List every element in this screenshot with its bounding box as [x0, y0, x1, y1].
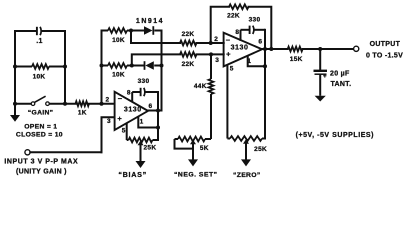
- wire U1 pin1: [138, 116, 158, 127]
- label 1N914: [136, 18, 164, 25]
- label UNITY GAIN: [16, 169, 67, 176]
- svg-text:3: 3: [107, 118, 111, 125]
- junction bottom-branch tap: [130, 64, 134, 68]
- wire U2 output: [261, 48, 288, 50]
- junction block-left/main: [13, 102, 17, 106]
- wire feedback to output: [249, 7, 272, 49]
- svg-text:22K: 22K: [227, 13, 240, 20]
- wire U1 output: [147, 110, 162, 112]
- ground arrow left: [10, 104, 20, 122]
- label 330 U1: [138, 78, 150, 85]
- svg-text:−: −: [118, 94, 123, 103]
- U1 pin 6: [148, 103, 152, 110]
- label OUTPUT: [370, 41, 401, 48]
- svg-text:“GAIN”: “GAIN”: [28, 110, 54, 117]
- label BIAS: [118, 170, 147, 179]
- wire 15K to terminal: [303, 48, 354, 50]
- svg-text:.1: .1: [36, 38, 42, 45]
- label 330 U2: [249, 17, 261, 24]
- svg-text:INPUT 3 V P-P MAX: INPUT 3 V P-P MAX: [4, 158, 78, 165]
- label U2 3130: [231, 44, 249, 51]
- svg-text:25K: 25K: [254, 146, 267, 153]
- wire 22K to U2 pin3: [197, 53, 224, 55]
- label NEG. SET: [174, 172, 218, 179]
- svg-text:2: 2: [106, 96, 110, 103]
- junction U2 output/feedback: [269, 47, 273, 51]
- svg-text:22K: 22K: [182, 61, 195, 68]
- label 44K: [194, 83, 207, 90]
- junction U1 output/comp: [156, 109, 160, 113]
- svg-text:6: 6: [148, 103, 152, 110]
- label OPEN = 1: [24, 123, 57, 130]
- svg-text:OUTPUT: OUTPUT: [370, 41, 401, 48]
- supply arrow NEG SET: [188, 155, 198, 166]
- wire left-block left vertical: [14, 31, 16, 104]
- label .1 value: [36, 38, 42, 45]
- capacitor C2 330: [132, 88, 158, 102]
- junction U2 output/comp: [263, 47, 267, 51]
- svg-text:5K: 5K: [200, 145, 209, 152]
- capacitor C3 330: [241, 26, 266, 41]
- svg-text:10K: 10K: [112, 37, 125, 44]
- label 5K: [200, 145, 209, 152]
- svg-text:0 TO -1.5V: 0 TO -1.5V: [366, 52, 403, 59]
- resistor R6 22K: [180, 52, 197, 57]
- label INPUT 3V P-P MAX: [4, 158, 78, 165]
- capacitor C1 .1: [15, 27, 65, 35]
- U2 pin 1: [247, 58, 251, 65]
- label 22K feedback: [227, 13, 240, 20]
- junction left-bus/main-wire: [100, 102, 104, 106]
- svg-text:330: 330: [138, 78, 150, 85]
- resistor R12 15K: [288, 47, 303, 52]
- svg-text:10K: 10K: [33, 74, 46, 81]
- svg-text:“BIAS”: “BIAS”: [118, 170, 147, 179]
- wire U2 comp down / zero vertical: [264, 30, 266, 139]
- switch GAIN: [31, 96, 49, 105]
- label CLOSED = 10: [16, 132, 63, 139]
- label TANT.: [331, 81, 352, 88]
- capacitor C4 20uF tantalum: [314, 49, 328, 96]
- label GAIN: [28, 110, 54, 117]
- U2 minus sign: [226, 36, 231, 45]
- resistor R4 10K bottom: [102, 63, 145, 68]
- svg-text:10K: 10K: [112, 72, 125, 79]
- label 1K value: [78, 109, 87, 116]
- svg-text:+: +: [323, 73, 327, 80]
- U2 pin 8: [235, 29, 239, 36]
- label 25K ZERO: [254, 146, 267, 153]
- junction left-bus/bottom-branch: [100, 64, 104, 68]
- output terminal: [354, 46, 359, 51]
- wire left-block right vertical: [64, 31, 66, 104]
- supply arrow BIAS: [136, 155, 146, 168]
- U2 pin 2: [214, 36, 218, 43]
- potentiometer R10 25K BIAS: [127, 123, 158, 161]
- wire top tap to 22K: [131, 31, 180, 44]
- svg-text:8: 8: [235, 29, 239, 36]
- label 22K top: [182, 31, 195, 38]
- svg-text:5: 5: [122, 127, 126, 134]
- junction pin1/vertical: [156, 126, 160, 130]
- label 10K top branch: [112, 37, 125, 44]
- U1 pin 8: [127, 90, 131, 97]
- svg-text:3130: 3130: [124, 107, 142, 114]
- svg-text:22K: 22K: [182, 31, 195, 38]
- svg-text:6: 6: [258, 38, 262, 45]
- wire 1K to op-amp pin2: [89, 103, 115, 105]
- op-amp U2 3130: [224, 33, 262, 67]
- U2 plus sign: [226, 50, 231, 59]
- diode D2 1N914: [145, 61, 162, 70]
- input terminal: [25, 150, 30, 155]
- junction pin3/44K: [209, 52, 213, 56]
- label 15K: [290, 56, 303, 63]
- wire bottom tap to 22K: [132, 54, 180, 65]
- svg-text:330: 330: [249, 17, 261, 24]
- wire switch to 1K: [50, 103, 76, 105]
- svg-text:15K: 15K: [290, 56, 303, 63]
- op-amp U1 3130: [115, 92, 148, 130]
- U1 minus sign: [118, 94, 123, 103]
- label ZERO: [233, 172, 260, 179]
- supply arrow ZERO: [241, 155, 251, 166]
- wire rectifier left bus: [101, 31, 103, 104]
- label U1 3130: [124, 107, 142, 114]
- U1 pin 2: [106, 96, 110, 103]
- label 25K BIAS: [143, 144, 156, 151]
- svg-text:CLOSED = 10: CLOSED = 10: [16, 132, 63, 139]
- svg-text:5: 5: [230, 66, 234, 73]
- svg-text:2: 2: [214, 36, 218, 43]
- label 20 uF: [330, 71, 350, 78]
- junction right-rail/10K: [63, 65, 67, 69]
- label 10K bottom branch: [112, 72, 125, 79]
- resistor R7 22K feedback: [229, 4, 249, 9]
- svg-text:3: 3: [215, 57, 219, 64]
- wire input to riser: [30, 151, 101, 153]
- svg-text:“ZERO”: “ZERO”: [233, 172, 260, 179]
- svg-text:+: +: [226, 50, 231, 59]
- wire main to switch: [15, 103, 31, 105]
- wire U1 comp/pin1/pot vertical: [157, 92, 159, 140]
- label 22K bottom: [182, 61, 195, 68]
- svg-text:1N914: 1N914: [136, 18, 164, 25]
- wire U2 pin1: [248, 56, 265, 66]
- U1 pin 1: [140, 119, 144, 126]
- svg-text:TANT.: TANT.: [331, 81, 352, 88]
- junction left-rail/10K: [13, 65, 17, 69]
- resistor R2 1K: [76, 101, 90, 106]
- resistor R8 44K: [209, 54, 214, 139]
- svg-text:8: 8: [127, 90, 131, 97]
- junction bus/bottom-diode: [160, 64, 164, 68]
- junction block-right/main: [63, 102, 67, 106]
- potentiometer R11 25K ZERO: [227, 65, 265, 160]
- resistor R5 22K: [180, 41, 197, 46]
- junction pin2/feedback: [209, 41, 213, 45]
- U2 pin 3: [215, 57, 219, 64]
- diode D1 1N914: [144, 26, 162, 35]
- wire output bus U1: [161, 31, 163, 111]
- svg-text:1K: 1K: [78, 109, 87, 116]
- wire 22K to U2 pin2: [197, 42, 224, 44]
- label supplies: [296, 132, 374, 139]
- svg-text:(UNITY GAIN ): (UNITY GAIN ): [16, 169, 67, 176]
- potentiometer R9 5K NEG SET: [175, 137, 212, 160]
- label 10K value R1: [33, 74, 46, 81]
- wire feedback riser: [211, 7, 229, 43]
- cap plus sign: [323, 73, 327, 80]
- U1 plus sign: [117, 114, 122, 123]
- svg-text:25K: 25K: [143, 144, 156, 151]
- svg-text:3130: 3130: [231, 44, 249, 51]
- ground arrow 20uF: [315, 96, 326, 102]
- label 0 TO -1.5V: [366, 52, 403, 59]
- svg-text:+: +: [117, 114, 122, 123]
- svg-text:“NEG. SET”: “NEG. SET”: [174, 172, 218, 179]
- svg-text:44K: 44K: [194, 83, 207, 90]
- U1 pin 3: [107, 118, 111, 125]
- svg-text:(+5V, -5V SUPPLIES): (+5V, -5V SUPPLIES): [296, 132, 374, 139]
- U2 pin 5: [230, 66, 234, 73]
- svg-text:20 µF: 20 µF: [330, 71, 350, 78]
- junction output/cap: [318, 47, 322, 51]
- junction top-branch tap: [129, 29, 133, 33]
- junction U2 pin1/vertical: [263, 64, 267, 68]
- svg-text:1: 1: [140, 119, 144, 126]
- resistor R3 10K top: [102, 28, 145, 33]
- svg-text:OPEN = 1: OPEN = 1: [24, 123, 57, 130]
- resistor R1 10K: [15, 64, 65, 69]
- U1 pin 5: [122, 127, 126, 134]
- U2 pin 6: [258, 38, 262, 45]
- svg-text:−: −: [226, 36, 231, 45]
- wire input riser: [102, 117, 115, 152]
